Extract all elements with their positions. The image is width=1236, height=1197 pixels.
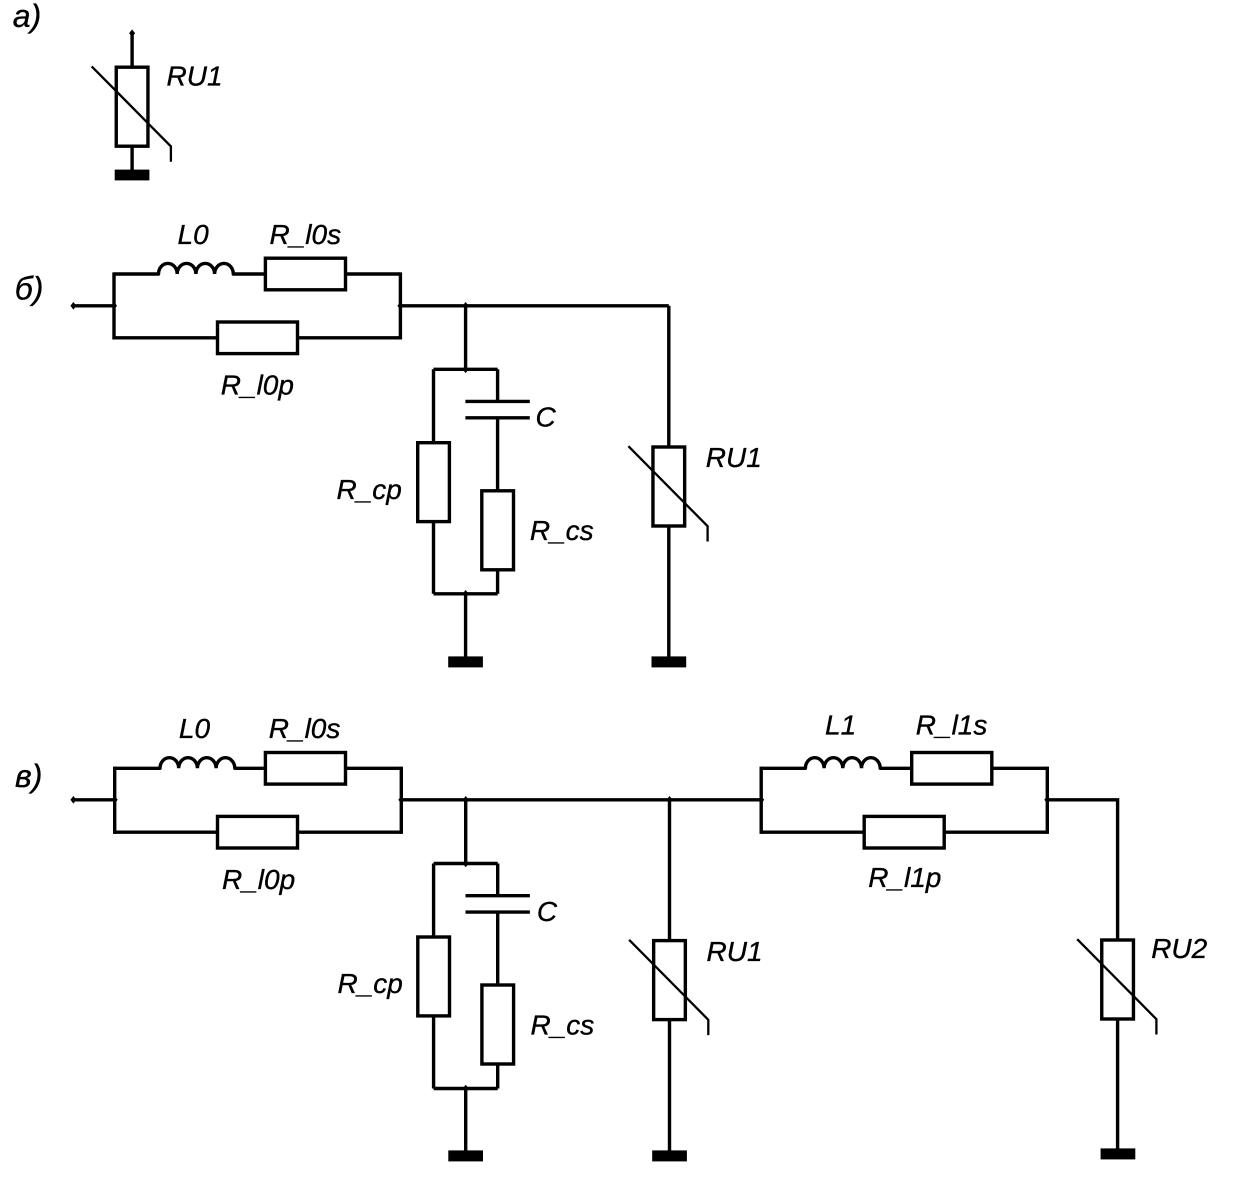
node A top terminal [129, 29, 135, 37]
resistor R_l1p [864, 816, 944, 848]
wire [464, 306, 467, 370]
wire [464, 594, 467, 657]
wire [667, 526, 670, 657]
wire [464, 800, 467, 864]
junction [758, 796, 764, 804]
wire [112, 272, 115, 339]
varistor RU1 (fig b) body [653, 447, 685, 526]
varistor RU1 (fig b) diagonal arrow [628, 446, 707, 541]
wire [496, 1064, 499, 1089]
svg-text:L0: L0 [179, 713, 211, 744]
wire [115, 831, 218, 834]
wire [1116, 1019, 1119, 1149]
junction [463, 302, 469, 310]
wire [432, 522, 435, 594]
ground [115, 170, 150, 181]
junction [463, 366, 469, 374]
wire [667, 306, 670, 447]
junction [463, 860, 469, 868]
junction [112, 796, 118, 804]
inductor L1 [805, 758, 880, 769]
wire [434, 368, 498, 371]
wire [496, 570, 499, 594]
svg-text:L1: L1 [825, 710, 856, 741]
capacitor C plate [465, 416, 529, 419]
svg-text:RU2: RU2 [1151, 933, 1207, 964]
inductor L0 [159, 263, 234, 274]
svg-text:L0: L0 [178, 219, 210, 250]
wire [73, 304, 114, 307]
junction [398, 796, 404, 804]
svg-text:в): в) [15, 758, 42, 794]
wire [434, 1087, 498, 1090]
resistor R_l0p (fig v) [218, 816, 298, 848]
svg-text:а): а) [13, 0, 41, 34]
varistor RU2 body [1102, 940, 1134, 1019]
junction [1044, 796, 1050, 804]
wire [114, 336, 218, 339]
varistor RU1 (fig a) body [116, 67, 148, 146]
svg-text:R_cs: R_cs [530, 515, 594, 546]
ground [448, 1150, 483, 1161]
input terminal arrow [70, 302, 76, 310]
wire [399, 272, 402, 339]
ground [448, 656, 483, 667]
wire [668, 800, 671, 941]
capacitor C plate (fig v) [466, 894, 530, 897]
wire [761, 831, 864, 834]
varistor RU2 diagonal arrow [1077, 939, 1156, 1034]
wire [346, 767, 402, 770]
wire [401, 798, 761, 801]
resistor R_l1s [912, 753, 992, 785]
junction [463, 1085, 469, 1093]
resistor R_l0s (fig v) [265, 753, 345, 785]
ground [652, 1150, 687, 1161]
capacitor C plate (fig v) [466, 910, 530, 913]
svg-text:RU1: RU1 [706, 442, 762, 473]
resistor R_l0p [218, 322, 298, 354]
wire [880, 767, 912, 770]
wire [496, 864, 499, 896]
wire [668, 1020, 671, 1151]
wire [434, 862, 498, 865]
resistor R_cp [418, 443, 450, 522]
varistor RU1 (fig v) body [654, 941, 686, 1020]
svg-text:R_cp: R_cp [337, 474, 402, 505]
wire [1046, 767, 1049, 834]
junction [463, 590, 469, 598]
svg-text:R_cp: R_cp [338, 968, 403, 999]
wire [496, 912, 499, 985]
wire [432, 864, 435, 938]
wire [432, 369, 435, 442]
resistor R_cs (fig v) [482, 985, 514, 1064]
svg-text:R_l0p: R_l0p [221, 370, 294, 401]
svg-text:R_cs: R_cs [531, 1010, 595, 1041]
wire [432, 1016, 435, 1089]
wire [298, 336, 401, 339]
resistor R_cp (fig v) [418, 937, 450, 1016]
wire [761, 767, 805, 770]
junction [667, 796, 673, 804]
wire [113, 767, 116, 834]
svg-text:R_l0p: R_l0p [222, 864, 295, 895]
varistor RU1 (fig a) diagonal arrow [92, 66, 171, 161]
svg-text:R_l0s: R_l0s [270, 219, 342, 250]
wire [400, 304, 668, 307]
svg-text:C: C [536, 402, 557, 433]
resistor R_cs [482, 491, 514, 570]
wire [944, 831, 1047, 834]
wire [114, 272, 159, 275]
wire [346, 272, 401, 275]
wire [496, 418, 499, 491]
wire [73, 798, 114, 801]
junction [397, 302, 403, 310]
resistor R_l0s [265, 258, 345, 290]
svg-text:R_l0s: R_l0s [269, 713, 341, 744]
wire [434, 592, 498, 595]
capacitor C plate [465, 400, 529, 403]
junction [463, 796, 469, 804]
wire [1047, 800, 1117, 940]
wire [130, 146, 133, 170]
varistor RU1 (fig v) diagonal arrow [629, 940, 708, 1035]
svg-text:R_l1p: R_l1p [868, 862, 941, 893]
svg-text:б): б) [15, 271, 44, 307]
wire [496, 369, 499, 401]
ground [1101, 1148, 1136, 1159]
wire [400, 767, 403, 834]
input terminal arrow [70, 796, 76, 804]
svg-text:RU1: RU1 [707, 936, 763, 967]
wire [115, 767, 160, 770]
svg-text:RU1: RU1 [167, 61, 223, 92]
inductor L0 (fig v) [160, 758, 235, 769]
svg-text:C: C [537, 896, 558, 927]
wire [992, 767, 1048, 770]
wire [464, 1089, 467, 1152]
junction [111, 302, 117, 310]
wire [298, 831, 402, 834]
wire [235, 767, 266, 770]
wire [130, 33, 133, 67]
ground [652, 656, 687, 667]
svg-text:R_l1s: R_l1s [916, 710, 988, 741]
wire [233, 272, 265, 275]
wire [760, 767, 763, 834]
